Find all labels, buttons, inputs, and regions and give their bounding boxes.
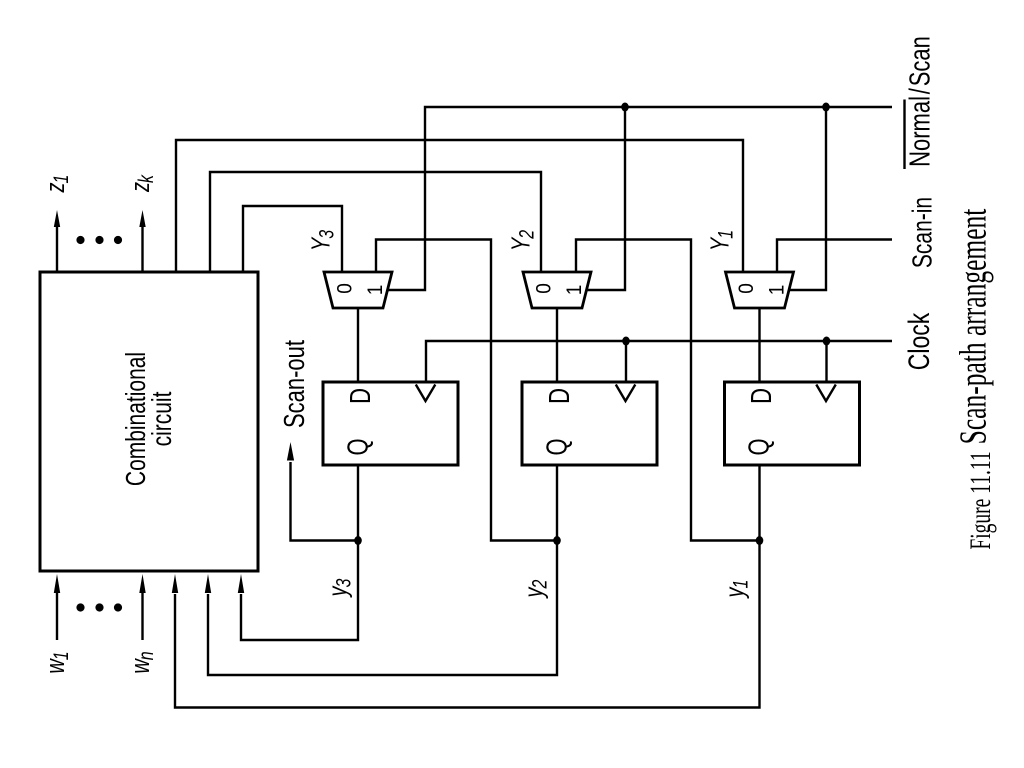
- svg-text:Q: Q: [343, 438, 374, 455]
- label Y2: [506, 229, 538, 251]
- junction dot Clock at FF2: [622, 337, 630, 346]
- wire Clock horizontal line: [426, 341, 892, 382]
- caption Figure 11.11: [965, 451, 997, 549]
- junction dot Clock at FF1: [823, 337, 831, 346]
- junction dot Normal/Scan at Y2: [621, 103, 629, 112]
- mux Y1: [726, 272, 794, 308]
- wire Clock drop to FF2: [625, 341, 627, 382]
- wire Scan-out from FF3 Q: [291, 462, 359, 541]
- label y1: [720, 580, 752, 600]
- label z1: [40, 175, 72, 194]
- arrowhead z1: [54, 210, 60, 227]
- wire Scan-in to mux Y1 input 1: [777, 240, 892, 273]
- mux Y3: [324, 272, 392, 308]
- svg-text:1: 1: [563, 285, 586, 296]
- clock triangle FF2: [616, 385, 636, 402]
- svg-text:0: 0: [735, 283, 758, 294]
- mux Y3 label 0: [334, 283, 357, 294]
- ellipsis dots top: [76, 236, 84, 244]
- wire FF2 Q feedback y2: [208, 465, 557, 675]
- junction dot Normal/Scan at Y1: [822, 103, 830, 112]
- wire mux Y3 output to FF3 D: [357, 308, 359, 382]
- caption Scan-path arrangement: [953, 209, 995, 445]
- mux Y1 label 1: [766, 285, 789, 296]
- svg-text:Scan-in: Scan-in: [908, 197, 938, 268]
- svg-text:Figure 11.11: Figure 11.11: [965, 451, 997, 549]
- arrowhead y1 feedback: [172, 574, 178, 593]
- label y2: [519, 579, 551, 599]
- wire FF1 Q feedback y1: [175, 465, 760, 708]
- combinational circuit box: [40, 272, 258, 571]
- label Y3: [306, 229, 338, 251]
- svg-text:Q: Q: [542, 438, 573, 455]
- flip-flop FF2 box: [522, 382, 657, 465]
- junction dot FF3 Q: [354, 536, 362, 545]
- clock triangle FF3: [416, 385, 436, 402]
- arrowhead zk: [139, 210, 145, 227]
- wire zk output shaft: [141, 227, 143, 272]
- svg-text:0: 0: [334, 283, 357, 294]
- arrowhead Scan-out: [287, 442, 294, 461]
- label Clock: [902, 312, 936, 370]
- label w1: [40, 651, 72, 673]
- wire Clock drop to FF1: [825, 341, 827, 382]
- ellipsis dots bottom: [76, 603, 84, 611]
- svg-text:Scan-path arrangement: Scan-path arrangement: [953, 209, 995, 445]
- flip-flop FF3 box: [323, 382, 458, 465]
- svg-text:D: D: [746, 388, 777, 404]
- wire Normal/Scan drop to mux Y1 select: [789, 107, 826, 290]
- mux Y2 label 0: [533, 283, 556, 294]
- mux Y2 label 1: [563, 285, 586, 296]
- arrowhead y2 feedback: [205, 574, 211, 593]
- arrowhead y3 feedback: [238, 574, 244, 593]
- flip-flop FF1 box: [725, 382, 860, 465]
- label zk: [125, 174, 157, 193]
- wire FF3 Q feedback y3: [241, 465, 358, 640]
- mux Y1 label 0: [735, 283, 758, 294]
- svg-text:circuit: circuit: [148, 391, 178, 446]
- wire w1 input shaft: [56, 592, 58, 640]
- label wn: [125, 651, 157, 673]
- svg-text:D: D: [345, 388, 376, 404]
- overline over Normal: [903, 100, 905, 170]
- mux Y3 label 1: [364, 285, 387, 296]
- svg-text:D: D: [544, 388, 575, 404]
- svg-text:1: 1: [364, 285, 387, 296]
- junction dot FF2 Q: [553, 536, 561, 545]
- svg-text:Scan-out: Scan-out: [279, 340, 310, 428]
- svg-text:1: 1: [766, 285, 789, 296]
- label y3: [323, 578, 355, 598]
- wire mux Y2 output to FF2 D: [556, 308, 558, 382]
- label Combinational circuit: [122, 352, 178, 486]
- arrowhead w1: [54, 574, 60, 593]
- FF3 label Q: [343, 438, 374, 455]
- wire box output Y1 to mux Y1 input 0: [176, 140, 743, 272]
- wire box output Y2 to mux Y2 input 0: [210, 172, 541, 272]
- svg-text:Clock: Clock: [902, 312, 936, 370]
- label Y1: [705, 230, 737, 251]
- junction dot FF1 Q: [756, 536, 764, 545]
- mux Y2: [523, 272, 591, 308]
- FF1 label D: [746, 388, 777, 404]
- wire FF1 Q to mux Y2 input 1: [576, 240, 760, 541]
- label Scan-out: [279, 340, 310, 428]
- FF2 label Q: [542, 438, 573, 455]
- svg-text:Q: Q: [744, 438, 775, 455]
- wire Normal/Scan drop to mux Y2 select: [587, 107, 625, 290]
- svg-text:0: 0: [533, 283, 556, 294]
- wire FF2 Q to mux Y3 input 1: [376, 240, 557, 541]
- FF2 label D: [544, 388, 575, 404]
- wire Normal/Scan horizontal line: [388, 107, 892, 290]
- label Normal/Scan: [905, 36, 936, 167]
- arrowhead wn: [139, 574, 145, 593]
- svg-text:Normal / Scan: Normal / Scan: [905, 36, 936, 167]
- label Scan-in: [908, 197, 938, 268]
- FF1 label Q: [744, 438, 775, 455]
- clock triangle FF1: [816, 385, 836, 402]
- wire z1 output shaft: [56, 227, 58, 272]
- wire box output Y3 to mux Y3 input 0: [243, 206, 342, 272]
- wire wn input shaft: [141, 592, 143, 640]
- FF3 label D: [345, 388, 376, 404]
- wire mux Y1 output to FF1 D: [758, 308, 760, 382]
